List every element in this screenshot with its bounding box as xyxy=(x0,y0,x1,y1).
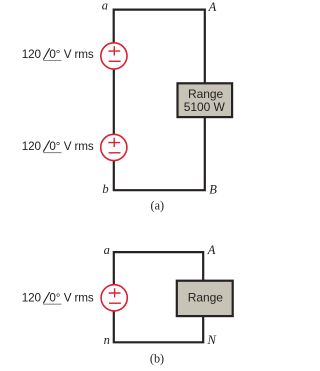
ac source V2 minus sign xyxy=(109,152,121,154)
svg-text:0°: 0° xyxy=(49,48,60,61)
svg-text:A: A xyxy=(208,0,217,14)
wire: circuit (b) from source V3 top, up left side, across top a-A, down right side to box top xyxy=(114,252,203,285)
svg-text:n: n xyxy=(104,333,110,347)
svg-text:V rms: V rms xyxy=(64,48,94,61)
svg-text:120: 120 xyxy=(22,292,42,305)
svg-text:b: b xyxy=(102,182,108,196)
svg-text:A: A xyxy=(207,243,216,257)
svg-text:a: a xyxy=(102,0,108,12)
load box: Range (circuit b) xyxy=(177,281,233,316)
svg-text:V rms: V rms xyxy=(64,292,94,305)
svg-text:120: 120 xyxy=(22,140,42,153)
ac source V2 plus sign xyxy=(108,138,120,147)
svg-text:V rms: V rms xyxy=(64,140,94,153)
source label: 120&#8736;0&#176; V rms (upper, V1) xyxy=(22,48,94,61)
svg-text:120: 120 xyxy=(22,48,42,61)
ac source V1 plus sign xyxy=(108,46,120,55)
svg-text:0°: 0° xyxy=(49,292,60,305)
wire: circuit (a) from source V2 bottom, down left side, across bottom b-B, up right side to box bottom xyxy=(114,118,205,191)
wire: circuit (b) from source V3 bottom, down left side, across bottom n-N, up right side to box bottom xyxy=(114,311,203,342)
svg-text:(a): (a) xyxy=(151,198,165,212)
ac source V1 minus sign xyxy=(109,60,121,62)
wire: circuit (a) from source V1 top, up left side, across top a-A, down right side to box top xyxy=(114,10,205,83)
wire: circuit (a) left side between source V1 bottom and source V2 top xyxy=(113,69,115,134)
ac source V3 plus sign xyxy=(109,288,121,297)
ac source V2 circle xyxy=(101,134,127,160)
ac source V3 minus sign xyxy=(109,302,121,304)
svg-text:a: a xyxy=(104,243,110,257)
svg-text:N: N xyxy=(207,333,217,347)
svg-text:5100 W: 5100 W xyxy=(184,100,226,114)
source label: 120&#8736;0&#176; V rms (lower, V2) xyxy=(22,140,94,153)
source label: 120&#8736;0&#176; V rms (circuit b, V3) xyxy=(22,292,94,305)
svg-text:(b): (b) xyxy=(150,352,164,366)
ac source V3 circle xyxy=(101,285,127,311)
ac source V1 circle xyxy=(101,43,127,69)
svg-text:Range: Range xyxy=(188,290,223,304)
svg-text:0°: 0° xyxy=(49,140,60,153)
svg-text:B: B xyxy=(209,183,217,197)
load box: Range 5100 W xyxy=(178,83,233,117)
